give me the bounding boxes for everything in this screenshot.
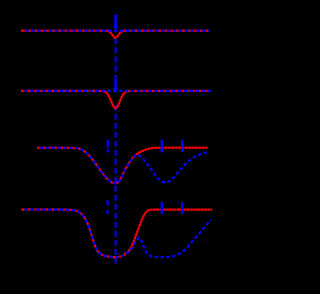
panel 2 red absorption curve <box>21 91 211 108</box>
panel 1 red absorption curve <box>21 31 209 38</box>
panel 4 red absorption curve <box>22 210 213 258</box>
panel 3 blue shifted probe curve <box>40 148 210 184</box>
panel 3 red absorption curve <box>37 148 208 184</box>
panel 3 left dashed marker tick <box>107 140 109 153</box>
center resonance dashed line (panels 2-4) <box>115 105 117 264</box>
center resonance dashed line (below panel-1 dip) <box>115 38 117 78</box>
panel 3 solid tick marker 2 <box>181 140 183 152</box>
panel 4 solid tick marker 1 <box>161 202 163 214</box>
panel 3 solid tick marker 1 <box>161 140 163 153</box>
panel 4 left dashed marker tick <box>106 200 108 213</box>
panel 2 blue flat reference line <box>25 90 212 92</box>
panel 2 blue pump arrow <box>113 78 119 93</box>
panel 4 blue shifted probe curve <box>25 210 212 258</box>
panel 1 blue flat reference line <box>25 30 209 32</box>
panel 1 blue pump arrow <box>113 15 119 31</box>
panel 4 solid tick marker 2 <box>181 202 183 214</box>
